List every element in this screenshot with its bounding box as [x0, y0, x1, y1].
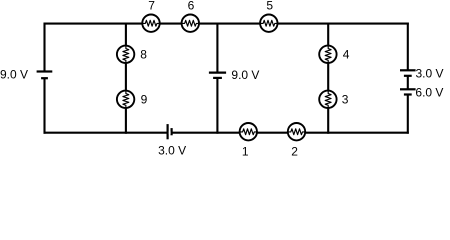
battery (right, 6.0 V): short plate — [404, 93, 412, 95]
wire: branch vertical with R4,R3 — [327, 23, 329, 134]
battery (right, 3.0 V): long plate — [400, 69, 416, 71]
svg-text:1: 1 — [242, 144, 249, 158]
wire: right vertical (top, to battery stack) — [407, 23, 409, 71]
svg-text:9.0 V: 9.0 V — [0, 67, 28, 81]
wire: bottom horizontal — [44, 132, 409, 134]
wire: right vertical (between batteries) — [407, 76, 409, 90]
svg-text:5: 5 — [266, 0, 273, 12]
battery (bottom, 3.0 V): long plate — [167, 124, 169, 139]
svg-text:3.0 V: 3.0 V — [416, 66, 444, 80]
wire: branch vertical with R8,R9 — [125, 23, 127, 134]
resistor R4 — [319, 46, 336, 63]
battery (right, 3.0 V): short plate — [404, 75, 412, 77]
svg-text:7: 7 — [148, 0, 155, 13]
battery (left, 9.0 V): long plate — [37, 70, 53, 72]
resistor R6 — [182, 15, 199, 32]
battery (right, 6.0 V): long plate — [400, 88, 416, 90]
resistor R2 — [288, 123, 305, 140]
resistor R7 — [142, 15, 159, 32]
wire: middle vertical (bottom, from battery) — [216, 78, 218, 134]
wire: left vertical (bottom part, from battery) — [43, 78, 45, 134]
resistor R9 — [117, 91, 134, 108]
battery (middle, 9.0 V): short plate — [213, 77, 222, 79]
svg-text:4: 4 — [343, 48, 350, 62]
wire: left vertical (top part, to battery) — [43, 23, 45, 72]
resistor R1 — [240, 123, 257, 140]
svg-text:6.0 V: 6.0 V — [415, 86, 443, 100]
svg-text:3.0 V: 3.0 V — [158, 144, 186, 158]
svg-text:9.0 V: 9.0 V — [231, 68, 259, 82]
svg-text:8: 8 — [140, 48, 147, 62]
resistor R5 — [260, 15, 277, 32]
svg-text:3: 3 — [342, 93, 349, 107]
gap in bottom wire for battery — [169, 131, 171, 134]
svg-text:2: 2 — [291, 144, 298, 158]
battery (left, 9.0 V): short plate — [41, 77, 48, 79]
resistor R8 — [117, 46, 134, 63]
svg-text:9: 9 — [141, 93, 148, 107]
resistor R3 — [319, 91, 336, 108]
wire: right vertical (bottom, from battery stack) — [407, 95, 409, 134]
battery (middle, 9.0 V): long plate — [209, 71, 226, 73]
wire: top horizontal — [44, 23, 409, 25]
wire: middle vertical (top, to battery) — [216, 23, 218, 73]
battery (bottom, 3.0 V): short plate — [171, 128, 173, 135]
svg-text:6: 6 — [188, 0, 195, 13]
